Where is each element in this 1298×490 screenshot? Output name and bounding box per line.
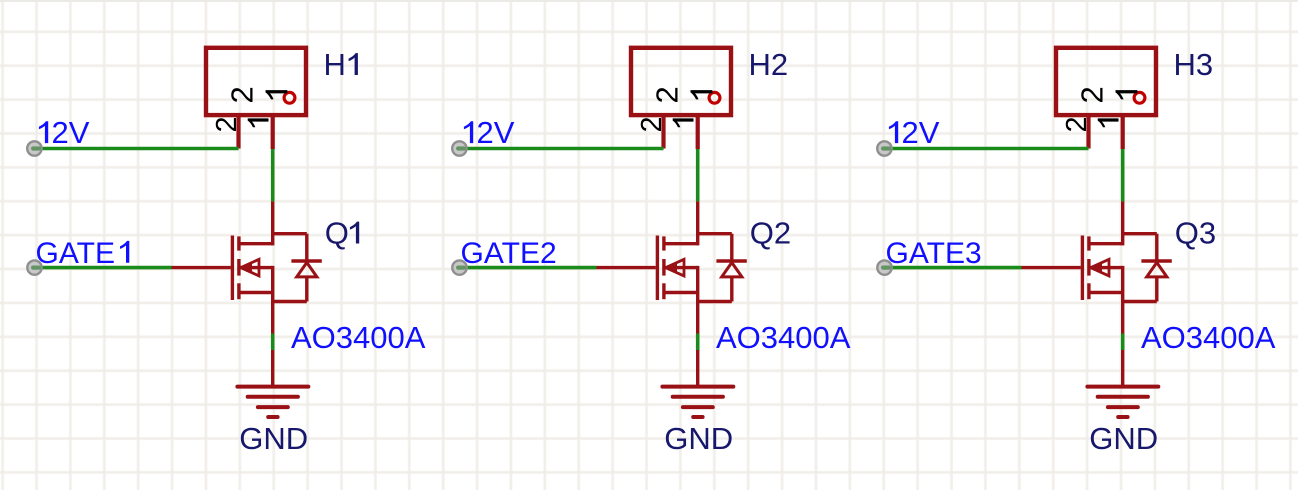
svg-text:H2: H2: [749, 47, 789, 82]
svg-text:Q3: Q3: [1175, 216, 1216, 251]
svg-text:Q2: Q2: [750, 216, 791, 251]
svg-text:H: H: [324, 47, 346, 82]
svg-text:GATE: GATE: [36, 237, 115, 270]
svg-text:H3: H3: [1174, 47, 1214, 82]
svg-text:Q: Q: [325, 216, 349, 251]
svg-text:GATE3: GATE3: [886, 237, 982, 270]
svg-text:GATE2: GATE2: [461, 237, 557, 270]
